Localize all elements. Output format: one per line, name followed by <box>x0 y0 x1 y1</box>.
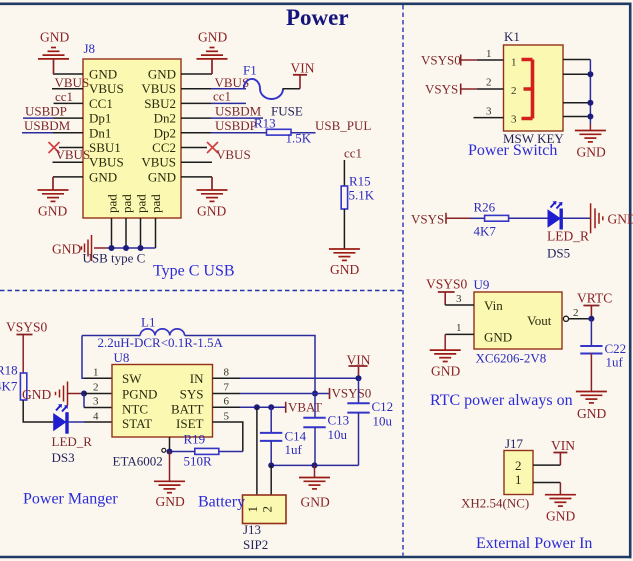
svg-text:1: 1 <box>515 472 522 487</box>
svg-text:C13: C13 <box>328 413 350 428</box>
svg-text:SW: SW <box>122 371 142 386</box>
U8 pin 3 NTC <box>84 407 112 409</box>
svg-text:USBDM: USBDM <box>24 118 71 133</box>
power port VSYS0 R18 <box>6 320 48 374</box>
svg-text:2: 2 <box>486 77 492 89</box>
wire VBUS to fuse <box>211 88 246 90</box>
resistor R13 <box>267 129 292 135</box>
svg-text:cc1: cc1 <box>344 146 362 161</box>
svg-text:Battery: Battery <box>198 494 245 511</box>
K1 pin 3 <box>474 117 504 119</box>
sheet border bottom <box>0 556 632 559</box>
regulator U9 body <box>474 292 562 349</box>
svg-text:J17: J17 <box>505 436 524 451</box>
svg-text:VSYS0: VSYS0 <box>6 320 48 335</box>
LED DS3 <box>53 404 69 434</box>
connector J8 body <box>83 59 181 218</box>
svg-text:SBU1: SBU1 <box>89 140 121 155</box>
svg-text:DS3: DS3 <box>52 450 75 465</box>
wire C14 to bus <box>270 441 272 466</box>
svg-text:PGND: PGND <box>122 387 157 402</box>
junction R19 <box>167 449 173 455</box>
LED DS5 <box>548 201 563 230</box>
U8 pin 8 IN <box>213 377 241 379</box>
svg-text:1: 1 <box>511 57 517 69</box>
power port VSYS0 U9 <box>426 277 468 306</box>
wire R18 to DS3 <box>23 400 53 422</box>
U8 pin numbers right <box>224 367 230 423</box>
svg-text:DS5: DS5 <box>547 246 570 261</box>
svg-text:R18: R18 <box>0 363 18 378</box>
svg-text:U9: U9 <box>474 277 490 292</box>
regulator U8 body <box>112 365 213 438</box>
svg-text:FUSE: FUSE <box>271 104 303 119</box>
wire VRTC to C22 <box>590 319 592 346</box>
U8 pin 1 SW <box>84 377 112 379</box>
wire junction to ground <box>169 452 171 482</box>
no connect X on CC2 <box>207 142 218 153</box>
U9 pin 2 circle <box>563 316 568 321</box>
svg-text:K1: K1 <box>504 29 520 44</box>
wire USBDP left <box>23 117 53 119</box>
svg-text:Dp2: Dp2 <box>154 125 176 140</box>
junction BATT a <box>254 404 260 410</box>
svg-text:2: 2 <box>515 458 522 473</box>
wire BATT to VBAT <box>240 406 286 408</box>
svg-text:GND: GND <box>89 169 117 184</box>
svg-text:GND: GND <box>330 262 359 277</box>
wire DS3 to STAT <box>69 421 84 423</box>
switch K1 body <box>504 45 564 131</box>
svg-text:VBUS: VBUS <box>56 147 91 162</box>
junction pad1 <box>109 245 115 251</box>
U8 pin names right <box>171 371 204 431</box>
K1 pin 1 <box>477 59 504 61</box>
power port VIN U8 <box>347 353 371 379</box>
svg-text:6: 6 <box>224 396 230 408</box>
svg-text:GND: GND <box>40 30 69 45</box>
svg-text:cc1: cc1 <box>55 89 73 104</box>
wire C14 top <box>270 407 272 433</box>
U8 pin 6 BATT <box>213 406 241 408</box>
svg-text:GND: GND <box>148 67 176 82</box>
svg-text:NTC: NTC <box>122 402 148 417</box>
svg-text:External Power In: External Power In <box>476 535 592 552</box>
svg-text:pad: pad <box>119 194 134 213</box>
wire Dp2 to R13 <box>211 132 267 134</box>
svg-text:ETA6002: ETA6002 <box>113 454 163 469</box>
ground symbol rotated at pads <box>82 235 108 261</box>
wire SW to L1 <box>82 336 84 379</box>
svg-text:VSYS0: VSYS0 <box>426 277 468 292</box>
svg-text:7: 7 <box>224 382 230 394</box>
U8 pin 4 STAT <box>84 421 112 423</box>
resistor R15 <box>341 186 347 209</box>
svg-text:GND: GND <box>22 387 51 402</box>
wire U9 pin1 to ground <box>444 334 446 350</box>
svg-text:VBAT: VBAT <box>288 400 322 415</box>
wire R13 to USB_PUL <box>291 132 316 134</box>
svg-text:1: 1 <box>93 367 99 379</box>
wire R26 to DS5 <box>509 217 550 219</box>
svg-text:1: 1 <box>456 322 462 334</box>
svg-text:2: 2 <box>260 506 275 513</box>
svg-text:USBDP: USBDP <box>215 118 257 133</box>
junction VRTC <box>588 316 594 322</box>
capacitor C13 <box>303 418 325 428</box>
resistor R18 <box>20 373 26 400</box>
wire VSYS to R26 <box>446 217 470 219</box>
svg-text:SYS: SYS <box>180 387 204 402</box>
wire L1 left <box>82 335 140 337</box>
svg-text:GND: GND <box>608 212 633 227</box>
svg-text:VBUS: VBUS <box>216 147 251 162</box>
ground symbol K1 <box>575 131 606 142</box>
junction SYS <box>312 391 318 397</box>
ground symbol rotated DS3 <box>56 382 85 406</box>
svg-text:1uf: 1uf <box>285 442 303 457</box>
power port VIN J17 <box>551 438 575 465</box>
svg-text:GND: GND <box>156 494 185 509</box>
U9 pin 3 <box>445 304 474 306</box>
svg-text:GND: GND <box>577 406 606 421</box>
svg-text:ISET: ISET <box>176 416 204 431</box>
svg-text:pad: pad <box>148 194 163 213</box>
K1 right pin a <box>563 59 590 61</box>
junction bus C14 <box>268 462 274 468</box>
svg-text:Power: Power <box>286 5 349 30</box>
wire to R26 <box>470 217 485 219</box>
svg-text:GND: GND <box>431 364 460 379</box>
J17 pin 1 <box>533 482 560 484</box>
net label tick VSYS0 <box>329 388 331 399</box>
sheet border top <box>0 2 632 5</box>
ground symbol rotated right DS5 <box>591 203 603 233</box>
fuse F1 <box>244 79 283 99</box>
svg-text:2: 2 <box>511 85 517 97</box>
svg-text:2.2uH-DCR<0.1R-1.5A: 2.2uH-DCR<0.1R-1.5A <box>98 335 224 350</box>
ground symbol top right of J8 <box>197 48 228 75</box>
wire L1 right <box>185 336 315 394</box>
ground symbol bottom right of J8 <box>197 177 228 202</box>
svg-text:pad: pad <box>105 194 120 213</box>
U9 pin 1 <box>445 333 474 335</box>
svg-text:J13: J13 <box>243 522 261 537</box>
J17 pin 2 <box>533 464 560 466</box>
junction K1 d <box>587 114 593 120</box>
svg-text:10u: 10u <box>328 427 348 442</box>
K1 right pin c <box>563 102 590 104</box>
junction pad2 <box>123 245 129 251</box>
U8 bottom pad pin <box>169 437 171 452</box>
svg-text:R19: R19 <box>184 432 206 447</box>
svg-text:R26: R26 <box>474 200 496 215</box>
ground symbol C22 <box>576 392 607 403</box>
svg-text:CC2: CC2 <box>152 140 176 155</box>
svg-text:Vout: Vout <box>527 313 552 328</box>
connector J13 body <box>243 495 287 524</box>
J8 pad pins <box>112 218 156 248</box>
ground symbol bottom left of J8 <box>38 177 69 202</box>
svg-text:GND: GND <box>546 509 575 524</box>
svg-text:VSYS: VSYS <box>411 212 444 227</box>
wire USBDM left <box>22 132 53 134</box>
wire NTC junction vertical <box>83 394 85 408</box>
svg-text:U8: U8 <box>114 350 130 365</box>
resistor R26 <box>485 215 509 221</box>
pin end circle <box>162 448 166 452</box>
svg-text:10u: 10u <box>373 414 393 429</box>
svg-text:Dp1: Dp1 <box>89 111 111 126</box>
capacitor C12 <box>347 403 369 412</box>
svg-text:VBUS: VBUS <box>141 81 176 96</box>
resistor R19 <box>195 448 219 454</box>
svg-text:J8: J8 <box>84 41 96 56</box>
svg-text:R13: R13 <box>254 116 276 131</box>
svg-text:GND: GND <box>89 67 117 82</box>
J8 right pins <box>181 74 212 177</box>
svg-text:VSYS: VSYS <box>425 82 458 97</box>
ground symbol top left of J8 <box>38 48 69 75</box>
K1 right pin d <box>563 116 590 118</box>
U9 pin 2 <box>569 318 592 320</box>
junction BATT b <box>268 404 274 410</box>
svg-text:LED_R: LED_R <box>547 229 589 244</box>
U8 pin numbers left <box>93 367 99 423</box>
svg-text:STAT: STAT <box>122 416 152 431</box>
svg-text:IN: IN <box>190 371 204 386</box>
junction K1 b <box>587 71 593 77</box>
capacitor C14 <box>260 433 282 441</box>
junction K1 c <box>587 100 593 106</box>
svg-text:USB_PUL: USB_PUL <box>315 118 371 133</box>
svg-text:USBDP: USBDP <box>25 104 67 119</box>
J8 pad pin names rotated <box>105 194 164 213</box>
net label tick VSYS DS5 <box>445 213 447 224</box>
svg-text:C12: C12 <box>372 399 394 414</box>
wire VSYS0 to pin1 <box>461 59 477 61</box>
wire C13 top <box>314 394 316 418</box>
svg-text:L1: L1 <box>141 315 155 330</box>
wire R19 to junction <box>170 451 195 453</box>
power port VRTC <box>577 291 612 319</box>
svg-text:XC6206-2V8: XC6206-2V8 <box>476 351 547 366</box>
svg-text:Dn1: Dn1 <box>89 125 111 140</box>
U8 pin 5 ISET <box>213 422 243 452</box>
inductor L1 <box>140 329 184 336</box>
svg-text:GND: GND <box>198 30 227 45</box>
wire SYS to VSYS0 <box>240 393 330 395</box>
svg-text:Power Manger: Power Manger <box>23 491 118 508</box>
wire DS5 to ground <box>563 217 590 219</box>
svg-text:Type C USB: Type C USB <box>153 263 235 280</box>
wire cc1 to R15 <box>343 160 345 186</box>
svg-text:GND: GND <box>301 495 330 510</box>
K1 pin 2 <box>477 88 504 90</box>
svg-text:VIN: VIN <box>291 61 315 76</box>
svg-text:F1: F1 <box>243 63 257 78</box>
K1 switch glyph <box>522 60 533 119</box>
svg-text:SBU2: SBU2 <box>144 96 176 111</box>
wire VSYS to pin2 <box>461 88 477 90</box>
junction pad3 <box>138 245 144 251</box>
wire C22 to ground <box>590 354 592 392</box>
wire C12 to bus <box>358 413 360 466</box>
junction PGND <box>81 391 87 397</box>
section divider vertical dashed <box>402 5 404 556</box>
net label tick VSYS <box>460 84 462 95</box>
svg-text:5: 5 <box>224 411 230 423</box>
svg-text:VSYS0: VSYS0 <box>421 53 461 68</box>
svg-text:SIP2: SIP2 <box>243 537 268 552</box>
wire R15 to ground <box>343 209 345 249</box>
svg-text:4K7: 4K7 <box>0 379 18 394</box>
svg-text:VRTC: VRTC <box>577 291 612 306</box>
wire C13 to bus <box>314 427 316 465</box>
svg-text:4: 4 <box>93 411 99 423</box>
svg-text:1: 1 <box>486 48 492 60</box>
svg-text:GND: GND <box>52 242 81 257</box>
svg-text:VSYS0: VSYS0 <box>332 386 372 401</box>
wire cc1 right <box>211 102 246 104</box>
svg-text:BATT: BATT <box>171 402 204 417</box>
capacitor C22 <box>580 346 602 354</box>
section divider horizontal dashed <box>0 290 403 292</box>
J8 pin names right column <box>141 67 176 185</box>
svg-text:Vin: Vin <box>484 298 503 313</box>
svg-text:2: 2 <box>93 382 99 394</box>
wire BATT to J13 pin1 <box>256 407 258 495</box>
junction VIN <box>356 375 362 381</box>
svg-text:VIN: VIN <box>551 438 575 453</box>
svg-text:pad: pad <box>134 194 149 213</box>
K1 right pin b <box>563 73 590 75</box>
U8 pin 2 PGND <box>84 393 112 395</box>
svg-text:VBUS: VBUS <box>141 155 176 170</box>
svg-text:cc1: cc1 <box>213 89 231 104</box>
J8 pin names left column <box>89 67 124 185</box>
U8 pin 7 SYS <box>213 393 241 395</box>
wire R19 row <box>219 451 243 453</box>
svg-text:VBUS: VBUS <box>55 75 90 90</box>
wire to K1 ground <box>589 124 591 131</box>
svg-text:5.1K: 5.1K <box>349 188 375 203</box>
svg-text:Power Switch: Power Switch <box>468 142 557 159</box>
svg-text:GND: GND <box>577 145 606 160</box>
U8 pin names left <box>122 371 157 431</box>
svg-text:3: 3 <box>486 106 492 118</box>
svg-text:RTC power always on: RTC power always on <box>430 392 573 409</box>
svg-text:XH2.54(NC): XH2.54(NC) <box>461 496 529 511</box>
svg-text:VBUS: VBUS <box>89 81 124 96</box>
svg-text:GND: GND <box>484 330 512 345</box>
wire VIN to C12 <box>358 378 360 403</box>
svg-text:3: 3 <box>93 396 99 408</box>
ground symbol below R15 <box>329 249 360 260</box>
J8 left pins <box>52 74 83 177</box>
wire IN to VIN <box>240 377 359 379</box>
svg-text:R15: R15 <box>349 174 371 189</box>
junction bus C13 <box>312 462 318 468</box>
svg-text:GND: GND <box>38 204 67 219</box>
connector J17 body <box>504 451 533 495</box>
no connect X on SBU1 <box>49 142 60 153</box>
ground symbol U9 <box>430 350 461 361</box>
svg-text:510R: 510R <box>184 454 213 469</box>
svg-text:GND: GND <box>197 204 226 219</box>
power port VIN top <box>291 61 315 89</box>
svg-text:VBUS: VBUS <box>89 155 124 170</box>
svg-text:LED_R: LED_R <box>52 434 93 449</box>
sheet border right <box>629 3 632 559</box>
wire pads bus <box>107 247 156 249</box>
wire J17 pin1 to ground <box>559 483 561 495</box>
svg-text:GND: GND <box>148 169 176 184</box>
wire bus to ground <box>314 465 316 477</box>
svg-text:8: 8 <box>224 367 230 379</box>
wire ground bus <box>271 464 358 466</box>
ground symbol J17 <box>545 495 576 506</box>
svg-text:1uf: 1uf <box>606 355 624 370</box>
net label tick VSYS0 <box>460 55 462 66</box>
svg-text:2: 2 <box>573 307 579 319</box>
wire fuse to VIN <box>283 88 301 90</box>
svg-text:3: 3 <box>456 293 462 305</box>
svg-text:CC1: CC1 <box>89 96 113 111</box>
svg-text:1: 1 <box>245 506 260 513</box>
svg-text:3: 3 <box>511 114 517 126</box>
wire K1 right vertical <box>589 60 591 125</box>
svg-text:4K7: 4K7 <box>474 224 497 239</box>
svg-text:USB type C: USB type C <box>83 251 146 266</box>
wire bus to J13 pin2 <box>270 465 272 495</box>
svg-text:Dn2: Dn2 <box>154 111 176 126</box>
ground symbol bus <box>299 478 330 489</box>
wire USBDM right <box>211 117 263 119</box>
ground symbol R19 <box>154 481 185 492</box>
net label tick VBAT <box>285 402 287 413</box>
